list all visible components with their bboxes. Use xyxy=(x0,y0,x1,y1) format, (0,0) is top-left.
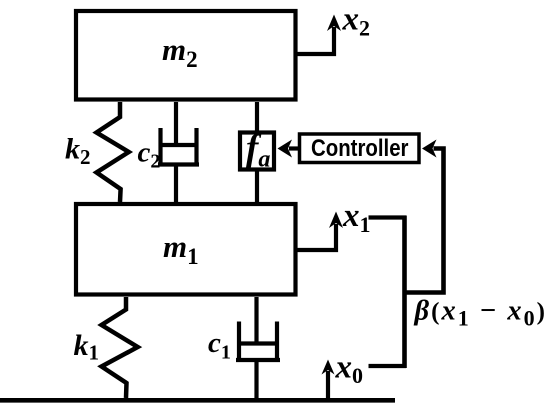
mass m2 box xyxy=(76,11,296,100)
arrowhead x0 xyxy=(322,360,335,375)
damper c1 lower rod xyxy=(254,360,258,398)
damper c1 upper rod xyxy=(254,297,258,344)
wire controller to fa xyxy=(289,146,300,150)
wire measurement bus xyxy=(402,216,407,369)
wire feedback to controller xyxy=(405,149,444,293)
spring k1 xyxy=(102,297,138,398)
svg-text:β(x1 − x0): β(x1 − x0) xyxy=(414,296,546,331)
mass m1 box xyxy=(76,204,296,295)
wire x2 tap from m2 xyxy=(297,27,334,54)
damper c2 upper rod xyxy=(174,102,178,146)
damper c2 cup xyxy=(158,128,199,165)
arrowhead into fa xyxy=(278,140,293,158)
actuator fa box xyxy=(240,133,274,170)
svg-text:c1: c1 xyxy=(208,327,231,364)
damper c2 lower rod xyxy=(174,164,178,202)
wire x0 arrow shaft xyxy=(326,371,330,398)
wire x0 tap xyxy=(369,364,407,368)
arrowhead x2 xyxy=(327,15,341,32)
svg-text:x2: x2 xyxy=(342,2,371,41)
wire x1 arrow from m1 xyxy=(297,224,336,250)
damper c2 piston plate xyxy=(159,143,198,147)
svg-text:Controller: Controller xyxy=(311,135,409,162)
svg-text:k1: k1 xyxy=(74,329,100,365)
svg-text:c2: c2 xyxy=(138,137,161,173)
actuator fa upper rod xyxy=(255,102,259,131)
svg-text:x0: x0 xyxy=(335,350,364,389)
spring k2 xyxy=(97,102,129,202)
actuator fa lower rod xyxy=(255,171,259,202)
ground line xyxy=(0,398,395,403)
damper c1 piston plate xyxy=(237,341,279,345)
arrowhead x1 xyxy=(329,212,343,229)
svg-text:k2: k2 xyxy=(65,133,91,170)
wire x1 tap xyxy=(369,215,407,219)
svg-text:x1: x1 xyxy=(342,198,371,237)
damper c1 cup xyxy=(236,322,280,361)
controller box xyxy=(300,134,420,163)
arrowhead into controller xyxy=(422,140,437,158)
